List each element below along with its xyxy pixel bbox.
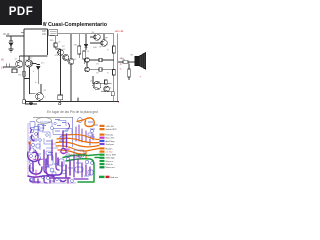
svg-text:1K: 1K bbox=[58, 42, 61, 44]
resistor R15 bbox=[99, 68, 102, 72]
wire sub rail bottom bbox=[25, 103, 37, 105]
svg-text:+V Out: +V Out bbox=[106, 151, 113, 154]
sparse mid blue wires bbox=[40, 121, 68, 156]
wire input feed bbox=[6, 35, 24, 37]
resistor R10 bbox=[113, 46, 116, 53]
connector J1 bbox=[23, 100, 26, 104]
svg-text:1V: 1V bbox=[1, 66, 4, 70]
trapezoid footprint bbox=[38, 125, 44, 132]
wire left border bbox=[23, 29, 25, 102]
transistor Q6 bbox=[68, 59, 74, 65]
svg-text:Entrada: Entrada bbox=[106, 134, 114, 137]
wire tick bbox=[77, 98, 79, 102]
wire Q6 collector bbox=[70, 36, 72, 59]
resistor R1 bbox=[12, 69, 17, 73]
label block U1 bbox=[49, 30, 58, 36]
resistor R16 bbox=[111, 92, 114, 96]
svg-text:47u: 47u bbox=[41, 63, 45, 65]
svg-text:Masa out: Masa out bbox=[106, 166, 115, 169]
label sprinkle bbox=[15, 32, 134, 99]
trace orange swath bbox=[56, 135, 99, 158]
resistor R2 bbox=[23, 71, 26, 76]
svg-text:56: 56 bbox=[87, 51, 90, 53]
svg-text:+42v DC: +42v DC bbox=[106, 126, 115, 128]
svg-text:Salida SPK: Salida SPK bbox=[106, 129, 118, 131]
bottom blue footprints bbox=[35, 154, 93, 181]
svg-text:Gnd out: Gnd out bbox=[110, 176, 118, 179]
left column footprints blue bbox=[30, 122, 42, 158]
wire top-left rail bbox=[24, 28, 48, 30]
svg-text:Q1: Q1 bbox=[15, 59, 19, 61]
svg-text:560: 560 bbox=[18, 75, 22, 77]
wire C5 down bbox=[37, 70, 39, 85]
transistor Q2 bbox=[25, 60, 32, 67]
purple accents top bbox=[30, 123, 86, 157]
svg-text:Realim: Realim bbox=[106, 148, 113, 150]
transistor Q12 bbox=[85, 58, 90, 63]
wire Q1 collector bbox=[18, 56, 20, 60]
wire Q5 emitter bbox=[39, 100, 41, 101]
svg-text:GND In: GND In bbox=[106, 164, 114, 166]
svg-text:R: R bbox=[107, 73, 109, 75]
svg-text:2K2: 2K2 bbox=[13, 67, 18, 69]
wire R8 bbox=[78, 34, 80, 46]
svg-text:TIP: TIP bbox=[99, 47, 103, 49]
wire rail B bbox=[117, 34, 119, 102]
svg-text:1K5: 1K5 bbox=[50, 40, 55, 42]
magenta accents bbox=[33, 149, 70, 177]
wire block feed bbox=[47, 29, 49, 55]
wire R9 bbox=[83, 59, 85, 64]
svg-text:Q4: Q4 bbox=[74, 59, 78, 61]
wire Q2 emitter drop bbox=[29, 67, 31, 94]
wire top rail bbox=[58, 33, 114, 35]
purple pillars mid bbox=[39, 140, 60, 173]
diode D1 bbox=[84, 42, 87, 50]
svg-text:-b: -b bbox=[120, 63, 123, 66]
svg-text:IN: IN bbox=[1, 58, 4, 62]
blue rect mid bbox=[74, 150, 84, 157]
svg-text:R: R bbox=[107, 50, 109, 52]
wire driver bus B bbox=[89, 68, 113, 70]
wire Q2 base feed bbox=[33, 63, 37, 65]
capacitor C1 bbox=[9, 36, 13, 46]
silkscreen text dashes bbox=[37, 120, 69, 155]
wire driver bus A bbox=[89, 59, 113, 61]
purple maze bottom band bbox=[30, 135, 68, 183]
transistor Q10 bbox=[93, 82, 101, 90]
resistor R12 bbox=[105, 80, 108, 84]
svg-text:100: 100 bbox=[93, 47, 97, 49]
wire Q2 collector bbox=[28, 56, 30, 60]
wire tail bbox=[24, 78, 30, 80]
wire Q5 collector bbox=[40, 84, 42, 93]
red tick left bbox=[29, 142, 31, 145]
wire collector bus bbox=[19, 55, 47, 57]
svg-text:47K: 47K bbox=[55, 55, 59, 57]
fuse F1 bbox=[123, 61, 128, 64]
svg-text:-c: -c bbox=[120, 68, 123, 71]
resistor R13 bbox=[128, 69, 131, 77]
purple pillars mid-right bbox=[74, 155, 90, 179]
svg-text:BC: BC bbox=[26, 60, 29, 62]
svg-text:1K: 1K bbox=[62, 46, 65, 48]
purple big loops bottom-left bbox=[28, 152, 70, 178]
left column lower parts bbox=[30, 161, 34, 181]
resistor R6 bbox=[54, 43, 57, 47]
board top edge bbox=[33, 117, 73, 119]
svg-text:C: C bbox=[45, 97, 47, 99]
wire stub A bbox=[21, 31, 24, 33]
purple pillar pair bbox=[63, 131, 67, 147]
top-right blue details bbox=[78, 118, 94, 136]
svg-text:Q3: Q3 bbox=[63, 49, 67, 51]
capacitor C5 bbox=[37, 65, 41, 70]
resistor R11 bbox=[113, 70, 116, 76]
wire mid column bbox=[60, 49, 62, 95]
wire Q6 emitter bbox=[70, 65, 72, 102]
svg-text:IN 1K: IN 1K bbox=[3, 32, 10, 36]
wire bottom rail bbox=[24, 101, 119, 103]
wire Q8 Q9 bbox=[96, 33, 98, 35]
svg-text:+: + bbox=[33, 70, 35, 73]
board bottom edge trace bbox=[32, 182, 76, 184]
trace green bbox=[63, 155, 99, 183]
svg-text:+42: +42 bbox=[119, 30, 124, 33]
svg-text:1R: 1R bbox=[96, 73, 99, 75]
legend bbox=[99, 125, 118, 179]
svg-text:GND Spk: GND Spk bbox=[106, 158, 116, 160]
transistor Q4 bbox=[63, 55, 69, 61]
big blue rect bbox=[53, 129, 72, 135]
trace orange loop bbox=[77, 118, 94, 127]
wire D1 bbox=[85, 34, 87, 42]
svg-text:Azul Neg: Azul Neg bbox=[106, 140, 116, 143]
transistor Q5 bbox=[36, 93, 44, 101]
wire Q5 base bbox=[30, 92, 36, 94]
wire driver drop bbox=[86, 62, 88, 67]
IC outline vertical bbox=[72, 118, 74, 148]
svg-text:+: + bbox=[118, 101, 120, 104]
capacitor C4 bbox=[58, 95, 63, 105]
wire input signal bbox=[3, 66, 16, 68]
svg-text:+: + bbox=[140, 76, 142, 79]
svg-text:Q2: Q2 bbox=[30, 58, 34, 60]
svg-text:Masa in: Masa in bbox=[106, 161, 114, 163]
svg-text:1R: 1R bbox=[96, 64, 99, 66]
board left edge bbox=[27, 123, 29, 177]
svg-text:Gnd pwr: Gnd pwr bbox=[106, 143, 115, 146]
svg-text:10K: 10K bbox=[42, 33, 47, 36]
top-right purple bits bbox=[90, 134, 93, 145]
capacitor C2 bbox=[7, 64, 9, 68]
transistor Q13 bbox=[85, 67, 90, 72]
extra blue bits bottom bbox=[47, 172, 74, 182]
resistor R14 bbox=[99, 58, 102, 62]
svg-text:Q6: Q6 bbox=[109, 88, 113, 90]
resistor R9 bbox=[83, 51, 86, 59]
resistor R8 bbox=[78, 46, 81, 54]
wire rail A bbox=[113, 34, 115, 102]
schematic drawing bbox=[0, 0, 149, 108]
purple ring bbox=[61, 148, 66, 153]
svg-text:+: + bbox=[35, 81, 37, 84]
large oval footprint bbox=[37, 118, 52, 124]
svg-text:330: 330 bbox=[74, 45, 78, 47]
svg-text:Bias 25V: Bias 25V bbox=[106, 138, 115, 140]
top-right text dashes bbox=[88, 122, 98, 137]
transistor Q9 bbox=[101, 40, 107, 46]
svg-text:Tierra SPK: Tierra SPK bbox=[106, 154, 117, 157]
label R values bbox=[13, 38, 124, 69]
ground 2 bbox=[29, 102, 33, 105]
transistor Q11 bbox=[104, 86, 110, 92]
svg-text:TIP: TIP bbox=[105, 38, 109, 40]
transistor Q3 bbox=[58, 50, 64, 56]
wire output stage bbox=[93, 83, 111, 85]
wire output node bbox=[118, 61, 135, 63]
svg-text:8R: 8R bbox=[131, 55, 134, 57]
ground bbox=[9, 46, 14, 52]
wire R6 up bbox=[55, 36, 57, 43]
transistor Q8 bbox=[94, 34, 100, 40]
blue text dashes bottom bbox=[45, 163, 89, 182]
speaker LS1 bbox=[135, 52, 146, 69]
transistor Q1 bbox=[16, 60, 23, 67]
svg-text:2N: 2N bbox=[44, 90, 47, 92]
PCB layout image bbox=[0, 115, 149, 198]
